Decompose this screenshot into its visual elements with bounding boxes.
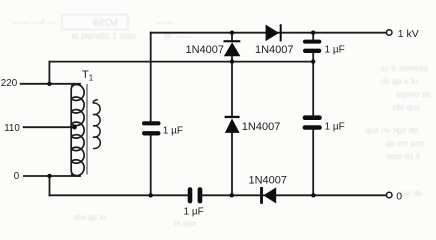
svg-text:sb ogit un sup: sb ogit un sup: [365, 125, 418, 135]
capacitor 1 µF (right column middle): [303, 115, 322, 129]
node: second bus / right column: [311, 59, 315, 63]
svg-text:etnemic b ss: etnemic b ss: [380, 63, 428, 73]
svg-text:1 kV: 1 kV: [398, 28, 419, 40]
diode 1N4007 (vertical, middle column, pointing up): [225, 116, 240, 133]
wire: right column (capacitor column): [312, 33, 314, 196]
svg-text:——: ——: [156, 17, 174, 27]
wire: middle column (diode column): [231, 33, 233, 196]
svg-text:1N4007: 1N4007: [242, 121, 281, 133]
svg-text:csb ni: csb ni: [174, 218, 196, 228]
node: 0 tap junction: [47, 174, 51, 178]
node: top bus / middle column: [230, 31, 234, 35]
capacitor 1 µF (top right, between top bus and second bus): [303, 40, 321, 53]
wire: 110 input lead: [24, 126, 73, 128]
transformer T1 secondary winding: [93, 100, 100, 149]
svg-text:1 µF: 1 µF: [325, 45, 345, 56]
svg-text:110: 110: [4, 123, 20, 134]
diode 1N4007 (horizontal, bottom bus, pointing left): [260, 187, 276, 204]
node: bottom bus / middle column: [230, 193, 234, 197]
svg-text:1 µF: 1 µF: [184, 207, 204, 218]
node: second bus / middle column: [230, 59, 234, 63]
svg-text:ut o up sb: ut o up sb: [380, 76, 418, 86]
diode 1N4007 (vertical, top left of bridge, x=232 top): [224, 40, 241, 56]
svg-text:220: 220: [1, 78, 18, 89]
svg-text:1N4007: 1N4007: [249, 174, 288, 186]
transformer T1 core: [86, 84, 88, 175]
transformer T1 primary winding (taps 220/110/0): [71, 84, 84, 176]
svg-text:0: 0: [14, 171, 20, 182]
capacitor 1 µF (left column): [142, 121, 161, 135]
node: bottom bus / left column: [149, 193, 153, 197]
terminal: 1 kV output: [386, 30, 392, 36]
svg-text:sb omqst: sb omqst: [396, 89, 431, 99]
svg-text:obis 1.stbnslq st: obis 1.stbnslq st: [71, 31, 136, 41]
wire: top bus from left column corner to 1 kV terminal: [151, 32, 387, 34]
svg-text:1 µF: 1 µF: [163, 126, 183, 137]
wire: bottom bus (node 0): [50, 194, 387, 196]
svg-text:it sb sqst: it sb sqst: [386, 151, 420, 161]
node: top bus / right column: [311, 31, 315, 35]
node: 110 tap on winding: [72, 125, 77, 130]
svg-text:st up ete: st up ete: [73, 212, 106, 222]
svg-text:M259: M259: [93, 18, 118, 29]
svg-text:1N4007: 1N4007: [186, 44, 225, 56]
svg-text:csq ms up: csq ms up: [385, 138, 424, 148]
svg-text:1N4007: 1N4007: [255, 44, 294, 56]
wire: left column (top bus down to bottom bus, interrupted by capacitor): [150, 33, 152, 196]
svg-text:1 µF: 1 µF: [325, 122, 345, 133]
terminal: 0 output: [386, 192, 392, 198]
node: 220 tap junction: [47, 82, 51, 86]
wire: 220 input lead and corner up to second bus: [21, 62, 80, 84]
wire: 0 input lead and corner down to bottom bus: [24, 176, 80, 195]
svg-text:— t— ——: — t— ——: [12, 17, 56, 27]
diode 1N4007 (horizontal, top bus, pointing right): [266, 24, 282, 41]
svg-text:0: 0: [396, 190, 402, 202]
node: bottom bus / right column: [311, 193, 315, 197]
capacitor 1 µF (horizontal, bottom bus): [188, 187, 203, 203]
wire: second bus from 220 corner to right column: [49, 61, 313, 63]
svg-text:sup ldo: sup ldo: [392, 102, 420, 112]
